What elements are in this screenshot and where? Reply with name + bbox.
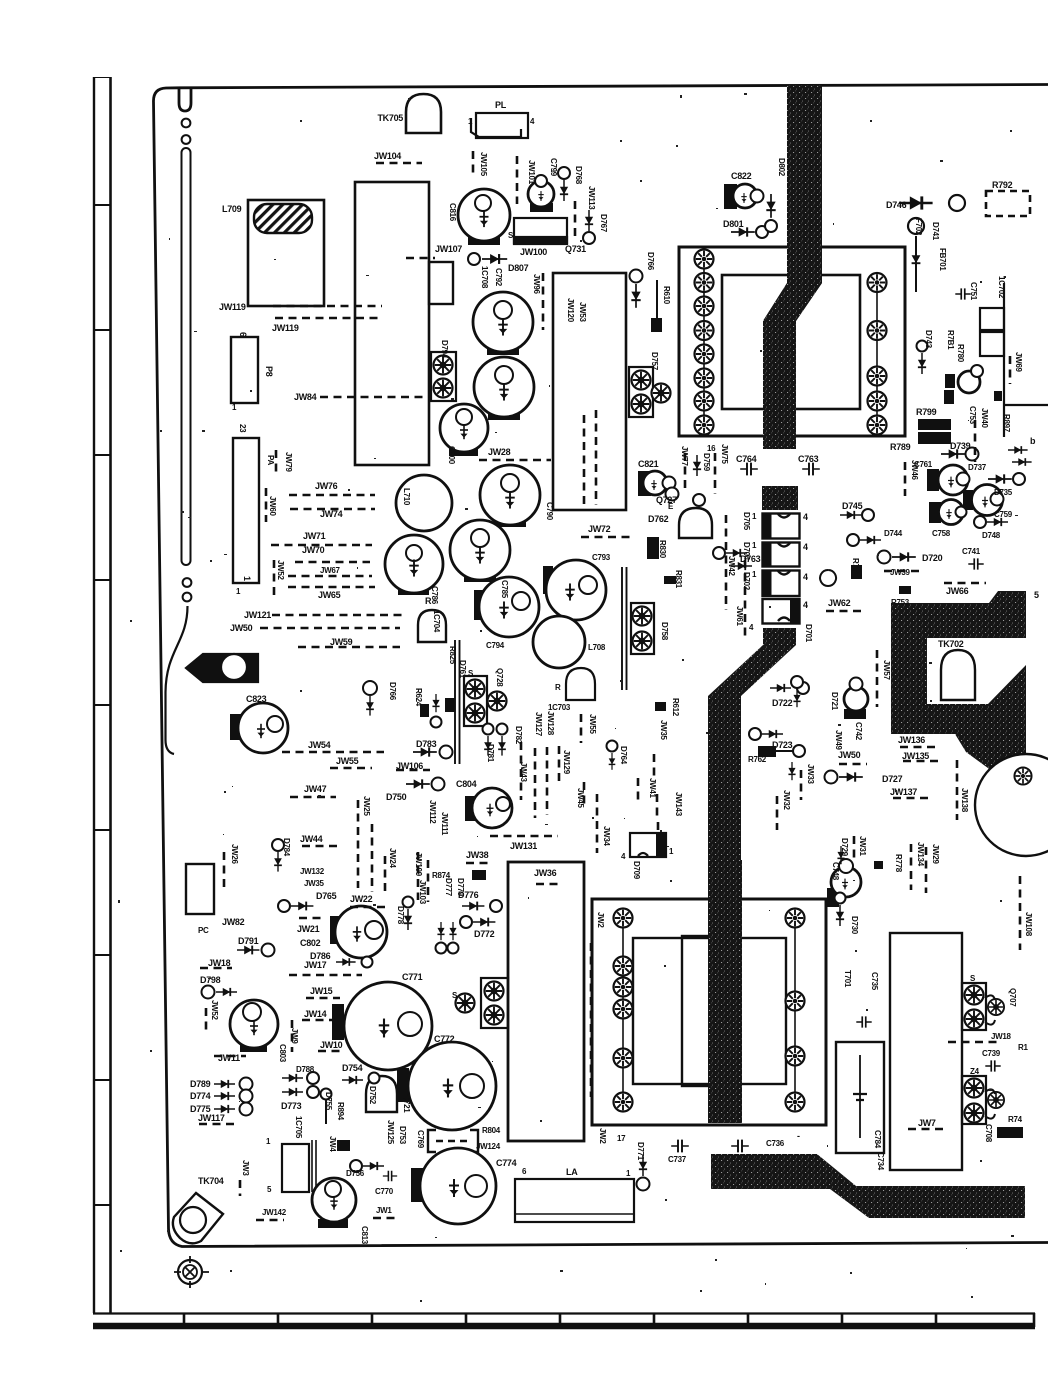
svg-text:C753: C753: [968, 406, 977, 425]
svg-text:D755: D755: [324, 1092, 333, 1111]
svg-text:JW53: JW53: [578, 302, 587, 323]
svg-text:JW71: JW71: [303, 531, 326, 541]
svg-text:TK704: TK704: [198, 1176, 224, 1186]
svg-text:JW26: JW26: [230, 844, 239, 865]
svg-text:R894: R894: [336, 1102, 345, 1121]
svg-text:D766: D766: [388, 682, 397, 701]
svg-text:JW41: JW41: [648, 778, 657, 799]
svg-text:D735: D735: [994, 488, 1013, 497]
svg-text:Q728: Q728: [495, 668, 504, 687]
svg-text:R7B1: R7B1: [946, 330, 955, 350]
svg-text:JW142: JW142: [262, 1208, 287, 1217]
svg-text:R751: R751: [851, 558, 860, 577]
svg-text:C763: C763: [798, 454, 819, 464]
svg-text:JW125: JW125: [386, 1120, 395, 1145]
svg-text:4: 4: [803, 600, 808, 610]
svg-text:JW29: JW29: [931, 844, 940, 865]
svg-text:JW47: JW47: [304, 784, 327, 794]
svg-text:JW2: JW2: [596, 912, 605, 928]
svg-text:D777: D777: [444, 878, 453, 897]
svg-text:JW2: JW2: [598, 1128, 607, 1144]
svg-text:JW61: JW61: [735, 606, 744, 627]
svg-text:D772: D772: [474, 929, 495, 939]
svg-text:1C703: 1C703: [548, 703, 571, 712]
svg-text:D750: D750: [386, 792, 407, 802]
svg-text:Z4: Z4: [970, 1067, 980, 1076]
svg-text:JW33: JW33: [806, 764, 815, 785]
svg-text:JW4: JW4: [328, 1136, 337, 1152]
svg-text:JW24: JW24: [388, 848, 397, 869]
svg-text:D721: D721: [830, 692, 839, 711]
svg-text:D771: D771: [636, 1142, 645, 1161]
svg-text:JW31: JW31: [858, 836, 867, 857]
svg-text:4: 4: [803, 542, 808, 552]
svg-text:C784: C784: [873, 1130, 882, 1149]
svg-text:JW79: JW79: [284, 452, 293, 473]
svg-text:JW75: JW75: [720, 444, 729, 465]
svg-text:JW22: JW22: [350, 894, 373, 904]
svg-text:D723: D723: [772, 740, 793, 750]
svg-text:D745: D745: [842, 501, 863, 511]
svg-text:D768: D768: [574, 166, 583, 185]
svg-text:JW77: JW77: [680, 446, 689, 467]
svg-text:JW108: JW108: [1024, 912, 1033, 937]
svg-text:D730: D730: [850, 916, 859, 935]
svg-text:L710: L710: [402, 488, 411, 506]
svg-text:JW117: JW117: [198, 1113, 225, 1123]
svg-text:R789: R789: [890, 442, 911, 452]
svg-text:D802: D802: [777, 158, 786, 177]
svg-text:D756: D756: [346, 1169, 365, 1178]
svg-text:JW70: JW70: [302, 545, 325, 555]
svg-text:-: -: [797, 1131, 800, 1141]
svg-text:C736: C736: [766, 1139, 785, 1148]
svg-text:JW69: JW69: [1014, 352, 1023, 373]
svg-text:JW39: JW39: [890, 568, 911, 577]
svg-text:JW21: JW21: [297, 924, 320, 934]
svg-text:R610: R610: [662, 286, 671, 305]
svg-text:D779: D779: [456, 878, 465, 897]
svg-text:C748: C748: [831, 862, 840, 881]
svg-text:D789: D789: [190, 1079, 211, 1089]
svg-text:D801: D801: [723, 219, 744, 229]
svg-text:D774: D774: [190, 1091, 211, 1101]
svg-text:JW74: JW74: [320, 509, 343, 519]
svg-text:D704: D704: [742, 542, 751, 561]
svg-text:JW59: JW59: [330, 637, 353, 647]
svg-text:R: R: [425, 596, 432, 606]
svg-text:D778: D778: [396, 906, 405, 925]
svg-text:R897: R897: [1002, 414, 1011, 433]
svg-text:D794: D794: [440, 340, 449, 359]
svg-text:D743: D743: [924, 330, 933, 349]
svg-text:JW101: JW101: [527, 160, 536, 185]
svg-text:JW62: JW62: [828, 598, 851, 608]
svg-text:R831: R831: [674, 570, 683, 589]
svg-text:JW11: JW11: [218, 1053, 240, 1063]
svg-text:JW66: JW66: [946, 586, 969, 596]
svg-text:C799: C799: [549, 158, 558, 177]
svg-text:C742: C742: [854, 722, 863, 741]
svg-text:D757: D757: [650, 352, 659, 371]
svg-text:JW96: JW96: [532, 274, 541, 295]
svg-text:JW35: JW35: [659, 720, 668, 741]
svg-text:C764: C764: [736, 454, 757, 464]
svg-text:JW136: JW136: [898, 735, 925, 745]
svg-text:JW131: JW131: [510, 841, 537, 851]
svg-text:1: 1: [242, 576, 252, 581]
svg-text:R74: R74: [1008, 1115, 1023, 1124]
svg-text:JW1: JW1: [376, 1206, 392, 1215]
svg-text:C734: C734: [876, 1152, 885, 1171]
svg-text:C771: C771: [402, 972, 423, 982]
svg-text:D764: D764: [619, 746, 628, 765]
svg-text:C800: C800: [447, 446, 456, 465]
svg-text:D720: D720: [922, 553, 943, 563]
svg-text:JW82: JW82: [222, 917, 245, 927]
svg-text:JW35: JW35: [304, 879, 325, 888]
svg-text:D784: D784: [282, 838, 291, 857]
svg-text:Q731: Q731: [565, 244, 586, 254]
svg-text:JW135: JW135: [902, 751, 929, 761]
svg-text:R612: R612: [671, 698, 680, 717]
svg-text:JW36: JW36: [534, 868, 557, 878]
svg-text:D722: D722: [772, 698, 793, 708]
svg-text:C821: C821: [638, 459, 659, 469]
svg-text:R778: R778: [894, 854, 903, 873]
svg-text:JW119: JW119: [219, 302, 246, 312]
svg-text:4: 4: [803, 512, 808, 522]
svg-text:JW10: JW10: [320, 1040, 343, 1050]
svg-text:C822: C822: [731, 171, 752, 181]
svg-text:Q721: Q721: [402, 1094, 411, 1113]
svg-text:D807: D807: [508, 263, 529, 273]
svg-text:4: 4: [803, 572, 808, 582]
svg-text:Q727: Q727: [656, 495, 677, 505]
svg-text:R624: R624: [414, 688, 423, 707]
svg-text:1C705: 1C705: [294, 1116, 303, 1139]
svg-text:C792: C792: [494, 268, 503, 287]
svg-text:R799: R799: [916, 407, 937, 417]
svg-text:JW105: JW105: [479, 152, 488, 177]
svg-text:D705: D705: [742, 512, 751, 531]
svg-text:JW49: JW49: [834, 730, 843, 751]
svg-text:JW42: JW42: [727, 556, 736, 577]
svg-text:JW45: JW45: [576, 788, 585, 809]
svg-text:JW127: JW127: [534, 712, 543, 737]
svg-text:D752: D752: [368, 1086, 377, 1105]
svg-text:JW38: JW38: [466, 850, 489, 860]
svg-text:C785: C785: [500, 580, 509, 599]
svg-text:C804: C804: [456, 779, 477, 789]
svg-text:D701: D701: [804, 624, 813, 643]
svg-text:R: R: [555, 683, 561, 692]
svg-text:TK705: TK705: [377, 113, 403, 123]
svg-text:R753: R753: [891, 598, 910, 607]
svg-text:JW111: JW111: [440, 812, 449, 836]
svg-text:D783: D783: [416, 739, 437, 749]
svg-text:C758: C758: [932, 529, 951, 538]
svg-text:JW121: JW121: [244, 610, 271, 620]
svg-text:PA: PA: [266, 455, 275, 465]
svg-text:R830: R830: [658, 540, 667, 559]
svg-text:C774: C774: [496, 1158, 517, 1168]
svg-text:D744: D744: [884, 529, 903, 538]
svg-text:D773: D773: [281, 1101, 302, 1111]
svg-text:C739: C739: [982, 1049, 1001, 1058]
svg-text:D727: D727: [882, 774, 903, 784]
svg-text:D762: D762: [648, 514, 669, 524]
svg-text:JW143: JW143: [674, 792, 683, 817]
svg-text:JW32: JW32: [782, 790, 791, 811]
svg-text:D759: D759: [702, 453, 711, 472]
svg-text:C813: C813: [360, 1226, 369, 1245]
svg-text:JW60: JW60: [268, 496, 277, 517]
svg-text:JW17: JW17: [304, 960, 327, 970]
svg-text:D788: D788: [296, 1065, 315, 1074]
svg-text:C794: C794: [486, 641, 505, 650]
svg-text:1C708: 1C708: [480, 266, 489, 289]
svg-text:JW44: JW44: [300, 834, 323, 844]
svg-text:C770: C770: [375, 1187, 394, 1196]
svg-text:JW50: JW50: [230, 623, 253, 633]
svg-text:C786: C786: [430, 586, 439, 605]
svg-text:JW124: JW124: [476, 1142, 501, 1151]
svg-text:D767: D767: [599, 214, 608, 233]
svg-text:D782: D782: [514, 726, 523, 745]
svg-text:LA: LA: [566, 1167, 578, 1177]
svg-text:D761: D761: [458, 660, 467, 679]
svg-text:R792: R792: [992, 180, 1013, 190]
svg-text:L709: L709: [222, 204, 242, 214]
svg-text:17: 17: [617, 1134, 626, 1143]
svg-text:C769: C769: [416, 1130, 425, 1149]
svg-text:JW132: JW132: [300, 867, 325, 876]
svg-text:L708: L708: [588, 643, 606, 652]
svg-text:JW55: JW55: [336, 756, 359, 766]
svg-text:JW43: JW43: [519, 762, 528, 783]
svg-text:R825: R825: [448, 646, 457, 665]
svg-text:JW112: JW112: [428, 800, 437, 824]
svg-text:JW28: JW28: [488, 447, 511, 457]
svg-text:D754: D754: [342, 1063, 363, 1073]
svg-text:JW120: JW120: [566, 298, 575, 323]
svg-text:JW55: JW55: [588, 714, 597, 735]
svg-text:JW50: JW50: [838, 750, 861, 760]
svg-text:D798: D798: [200, 975, 221, 985]
svg-text:JW72: JW72: [588, 524, 611, 534]
svg-text:JW18: JW18: [991, 1032, 1012, 1041]
svg-text:C816: C816: [448, 203, 457, 222]
svg-text:16: 16: [707, 444, 716, 453]
svg-text:JW34: JW34: [602, 826, 611, 847]
svg-text:1C704: 1C704: [432, 610, 441, 633]
svg-text:JW76: JW76: [315, 481, 338, 491]
svg-text:C737: C737: [668, 1155, 687, 1164]
svg-text:C793: C793: [592, 553, 611, 562]
svg-text:JW109: JW109: [414, 852, 423, 877]
svg-text:JW52: JW52: [276, 560, 285, 581]
svg-text:D729: D729: [840, 838, 849, 857]
svg-text:C759: C759: [994, 510, 1013, 519]
svg-text:C751: C751: [969, 282, 978, 301]
svg-text:JW113: JW113: [587, 186, 596, 210]
svg-text:F702: F702: [914, 218, 923, 236]
svg-text:JW52: JW52: [210, 1000, 219, 1021]
svg-text:JW134: JW134: [916, 842, 925, 867]
svg-text:C735: C735: [870, 972, 879, 991]
svg-text:C772: C772: [434, 1034, 455, 1044]
svg-text:C790: C790: [545, 502, 554, 521]
svg-text:JW15: JW15: [310, 986, 333, 996]
svg-text:JW138: JW138: [960, 788, 969, 813]
svg-text:JW103: JW103: [418, 880, 427, 905]
svg-text:JW40: JW40: [980, 408, 989, 429]
svg-text:C823: C823: [246, 694, 267, 704]
svg-text:JW14: JW14: [304, 1009, 327, 1019]
svg-text:D758: D758: [660, 622, 669, 641]
svg-text:PL: PL: [495, 100, 507, 110]
svg-text:JW137: JW137: [890, 787, 917, 797]
svg-text:b: b: [1030, 436, 1036, 446]
svg-text:D781: D781: [486, 744, 495, 763]
svg-text:JW107: JW107: [435, 244, 462, 254]
svg-text:D741: D741: [931, 222, 940, 241]
svg-text:JW46: JW46: [910, 460, 919, 481]
svg-text:D709: D709: [632, 861, 641, 880]
svg-text:1C702: 1C702: [997, 276, 1006, 299]
svg-text:JW57: JW57: [882, 660, 891, 681]
svg-text:C708: C708: [984, 1124, 993, 1143]
svg-text:D753: D753: [398, 1126, 407, 1145]
svg-text:FB701: FB701: [938, 248, 947, 271]
svg-text:5: 5: [1034, 590, 1039, 600]
svg-text:JW67: JW67: [320, 566, 341, 575]
svg-text:R804: R804: [482, 1126, 501, 1135]
svg-text:C741: C741: [962, 547, 981, 556]
svg-text:6: 6: [238, 332, 248, 337]
svg-text:JW119: JW119: [272, 323, 299, 333]
svg-text:JW7: JW7: [918, 1118, 936, 1128]
svg-text:JW54: JW54: [308, 740, 331, 750]
svg-text:D737: D737: [968, 463, 987, 472]
svg-text:T701: T701: [843, 970, 852, 988]
svg-text:Q707: Q707: [1008, 988, 1017, 1007]
svg-text:D765: D765: [316, 891, 337, 901]
svg-text:JW100: JW100: [520, 247, 547, 257]
svg-text:D702: D702: [742, 572, 751, 591]
svg-text:JW128: JW128: [546, 711, 555, 736]
svg-text:R762: R762: [748, 755, 767, 764]
svg-text:JW84: JW84: [294, 392, 317, 402]
svg-text:JW25: JW25: [362, 796, 371, 817]
svg-text:D766: D766: [646, 252, 655, 271]
svg-text:JW3: JW3: [241, 1160, 250, 1176]
svg-text:TK702: TK702: [938, 639, 964, 649]
svg-text:JW65: JW65: [318, 590, 341, 600]
svg-text:R1: R1: [1018, 1043, 1028, 1052]
svg-text:D791: D791: [238, 936, 259, 946]
svg-text:JW18: JW18: [208, 958, 231, 968]
svg-text:JW9: JW9: [290, 1028, 299, 1044]
svg-text:P8: P8: [264, 366, 274, 377]
svg-text:23: 23: [238, 424, 247, 433]
svg-text:PC: PC: [198, 926, 209, 935]
svg-text:R780: R780: [956, 344, 965, 363]
svg-text:D739: D739: [950, 441, 971, 451]
svg-text:JW129: JW129: [562, 750, 571, 775]
svg-text:JW104: JW104: [374, 151, 401, 161]
svg-text:C802: C802: [300, 938, 321, 948]
svg-text:JW106: JW106: [396, 761, 423, 771]
svg-text:C803: C803: [278, 1044, 287, 1063]
svg-text:D748: D748: [982, 531, 1001, 540]
svg-text:D746: D746: [886, 200, 907, 210]
